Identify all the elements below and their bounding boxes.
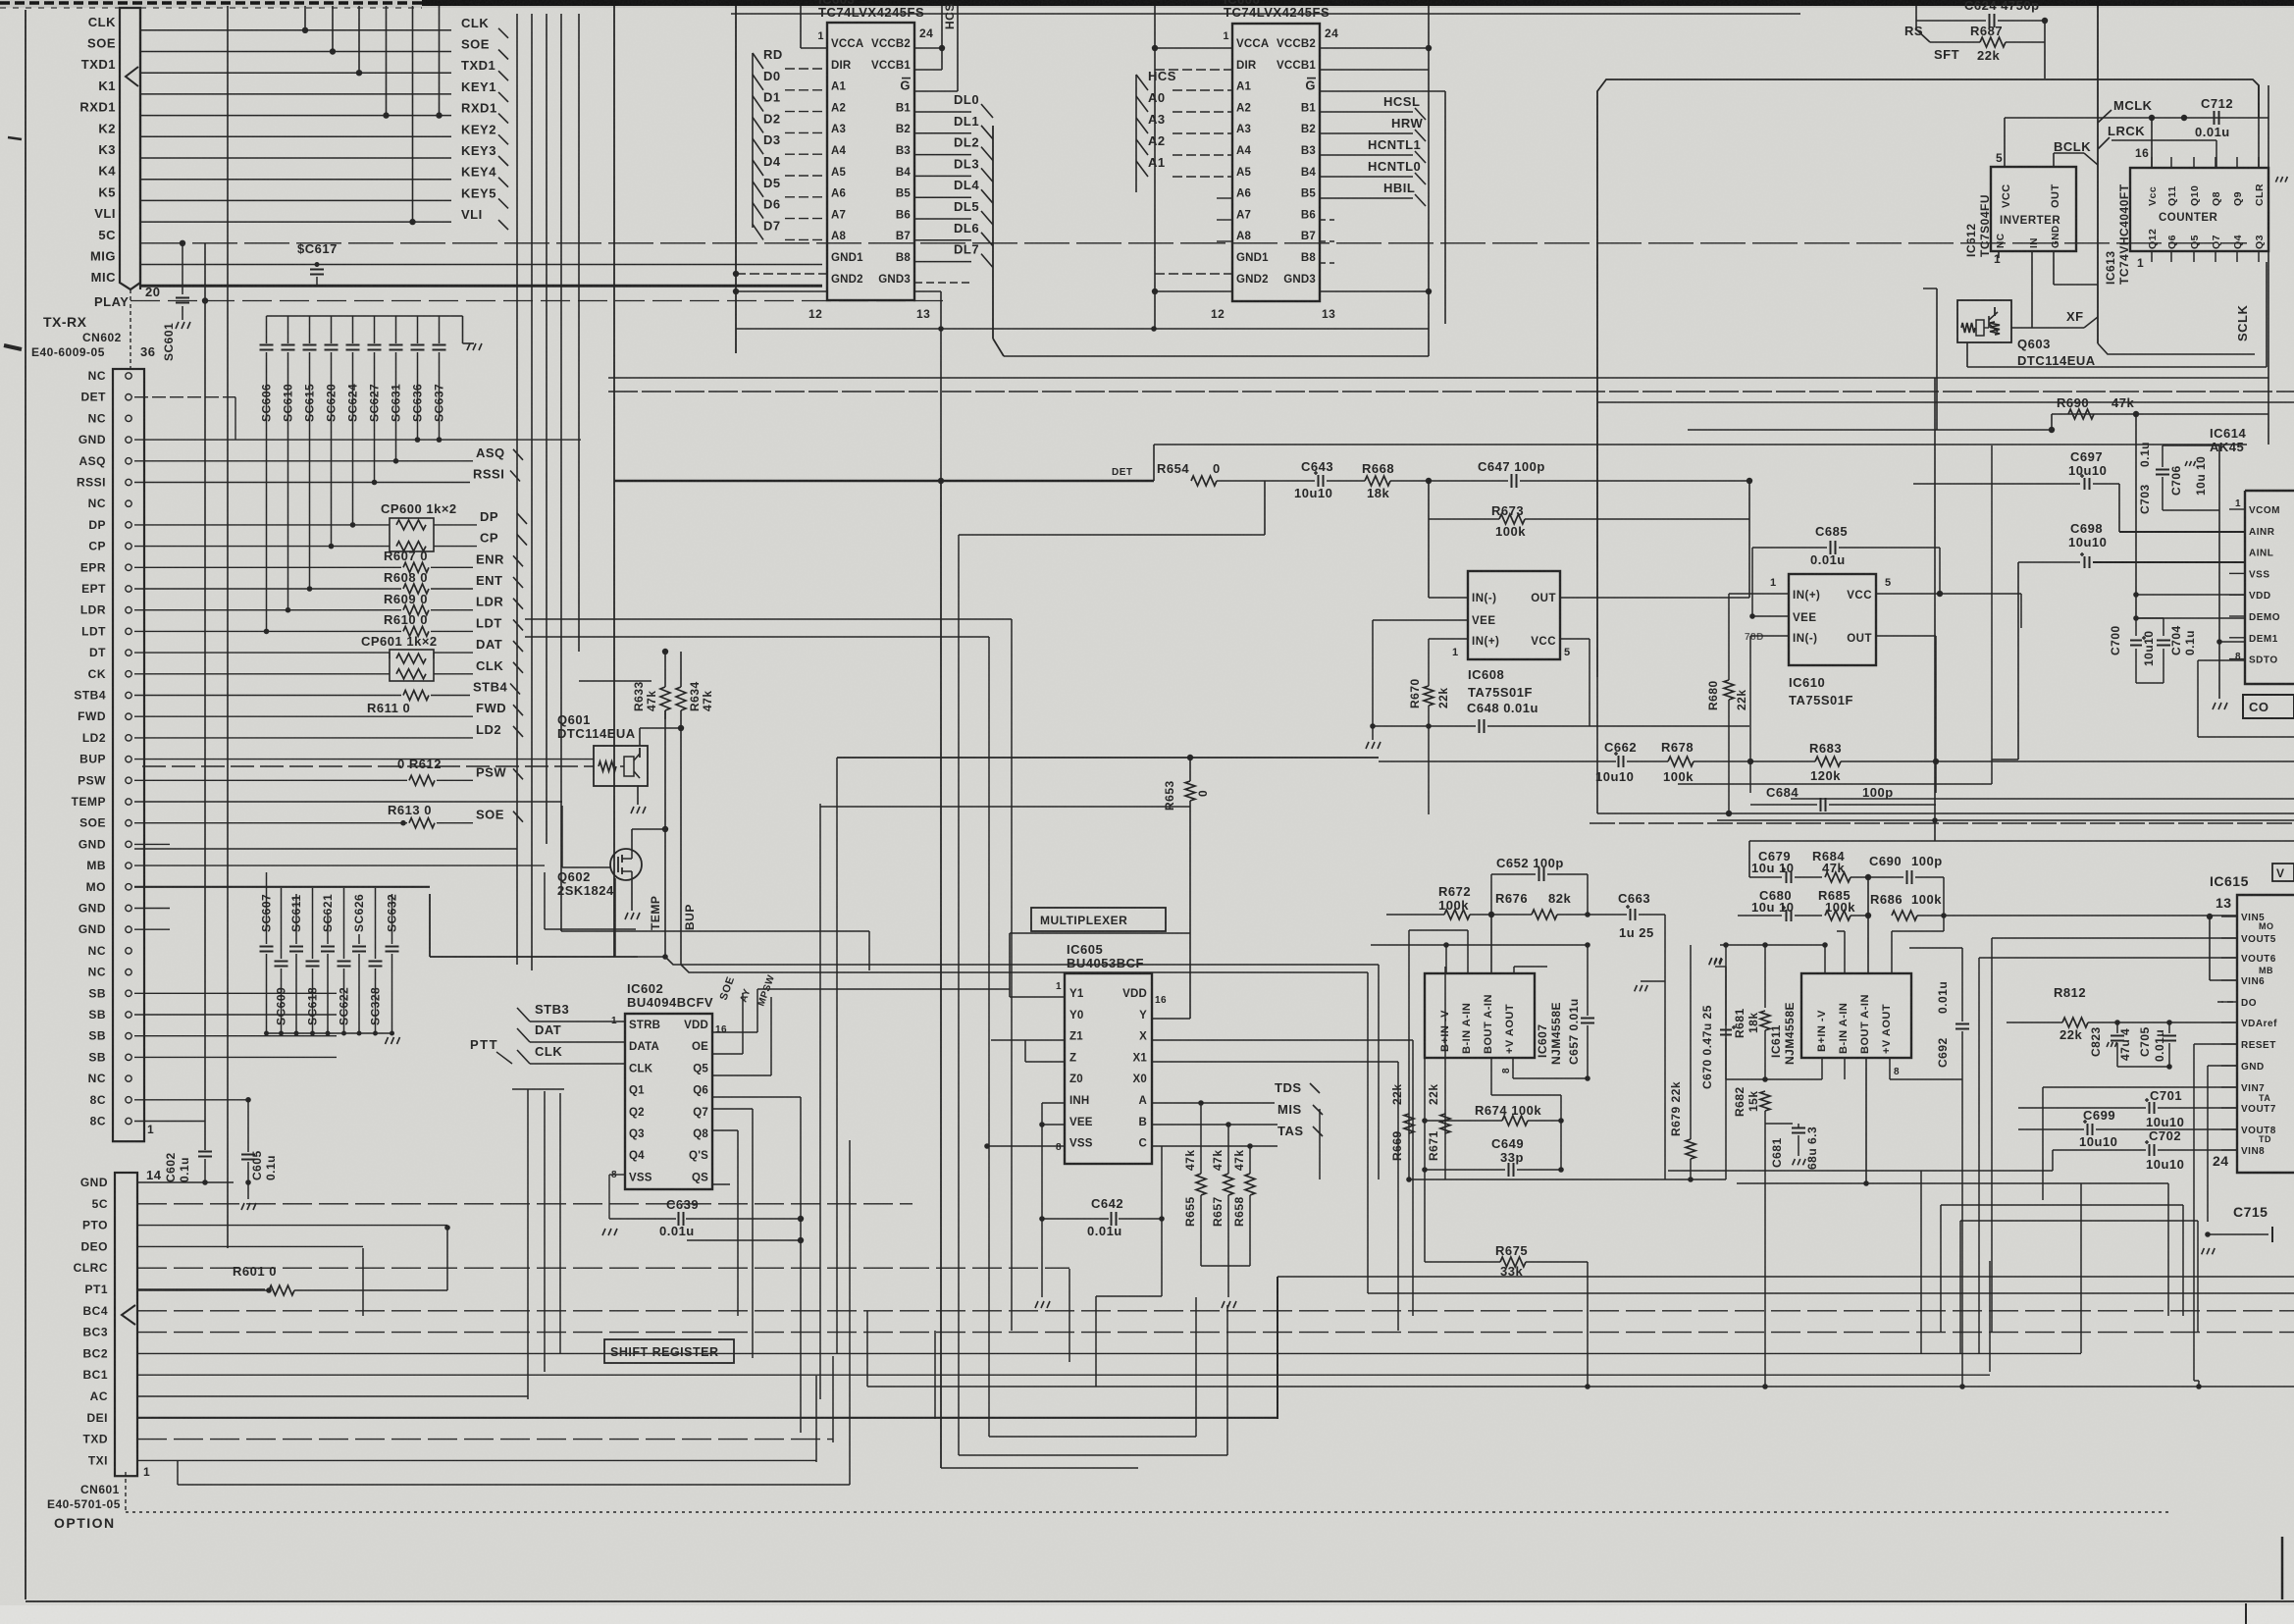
wire GND3	[914, 290, 941, 292]
pin circle	[126, 437, 131, 443]
wire G IC606	[1320, 90, 1445, 92]
capacitor C617	[316, 265, 318, 268]
pin circle	[126, 394, 131, 400]
pin circle	[126, 735, 131, 741]
wire DEO row	[137, 1245, 363, 1247]
wire to pin	[785, 111, 827, 113]
ground for CLR	[2275, 177, 2277, 183]
pin stub	[2236, 251, 2238, 262]
wire net SOE	[140, 51, 451, 53]
wire B2 IC606	[1320, 132, 1413, 134]
wire bus 819	[820, 806, 1190, 808]
pin circle	[126, 628, 131, 634]
resistor R654	[1191, 476, 1217, 486]
junction C639	[798, 1216, 804, 1222]
wire MB step	[544, 872, 546, 929]
wire ENR row	[134, 566, 401, 568]
wire DL bus vertical	[992, 126, 994, 339]
wire row 1413 ground bus	[867, 1386, 2294, 1388]
capacitor C685	[1752, 547, 1827, 549]
wire vertical 1090 CLRC	[1069, 1269, 1070, 1362]
junction	[393, 458, 399, 464]
capacitor SC601	[176, 297, 189, 299]
wire vertical 571 BC2	[559, 1093, 561, 1353]
capacitor C702	[2149, 1144, 2151, 1156]
junction VDD	[2133, 592, 2139, 598]
wire to pin	[1173, 176, 1232, 178]
junction MCLK/C712	[2181, 115, 2187, 121]
ground for C681	[1793, 1159, 1796, 1165]
wire from pin MO	[134, 886, 429, 888]
junction TEMP bus	[662, 954, 668, 960]
capacitor SC609	[281, 888, 283, 959]
wire vertical 1251	[1226, 1305, 1228, 1455]
wire Q8	[712, 1129, 738, 1131]
wire VOUT8	[2096, 1128, 2237, 1130]
junction	[1152, 288, 1158, 294]
junction VCC 610	[1937, 591, 1943, 597]
IC IC606 TC74LVX4245FS	[1232, 24, 1320, 301]
wire C	[1152, 1145, 1277, 1147]
capacitor SC637	[439, 316, 441, 343]
resistor R678	[1627, 760, 1668, 762]
wire ENT row	[134, 588, 401, 590]
wire VI box top right	[2272, 864, 2294, 881]
pin stub	[2229, 594, 2245, 596]
resistor R609	[403, 605, 429, 615]
resistor R613	[409, 818, 435, 828]
wire A7 stub	[1217, 219, 1232, 221]
pin circle	[126, 543, 131, 549]
wire DEMO stub	[2136, 617, 2245, 619]
wire 963 right	[1446, 944, 1588, 946]
wire C700 C704 bus	[2136, 617, 2164, 619]
box MULTIPLEXER	[1031, 908, 1166, 931]
junction C647 right	[1747, 478, 1752, 484]
wire GND1	[736, 273, 827, 275]
junction GND2	[733, 288, 739, 294]
pin stub	[2151, 251, 2153, 262]
wire B8 stub	[1320, 262, 1334, 264]
wire Q602 source	[631, 880, 633, 911]
pin stub	[2236, 157, 2238, 168]
wire row 1496	[941, 1467, 1138, 1469]
wire GND3 IC606	[1320, 290, 1429, 292]
capacitor C670	[1725, 967, 1727, 1025]
pin circle	[126, 1118, 131, 1124]
right bottom edge tick	[2281, 1537, 2284, 1599]
wire from pin SB	[134, 1056, 337, 1058]
capacitor SC620	[331, 316, 333, 343]
wire BCLK	[2054, 152, 2084, 154]
junction PLAY	[202, 297, 208, 303]
wire A-IN up 611	[1867, 877, 1869, 973]
resistor R671	[1444, 967, 1446, 1179]
resistor R676	[1491, 914, 1532, 916]
wire counter bottom bus	[1967, 366, 2267, 368]
wire LDT row	[134, 630, 401, 632]
resistor R683	[1815, 757, 1841, 766]
pin circle	[126, 1075, 131, 1081]
wire from pin GND	[134, 908, 170, 910]
wire vertical v1008	[988, 637, 990, 1437]
wire B1	[914, 111, 971, 113]
wire vertical drop	[304, 6, 306, 30]
transistor Q602 MOSFET	[610, 849, 642, 880]
resistor R685	[1825, 911, 1851, 920]
capacitor SC606	[266, 316, 268, 343]
bottom right tick	[2245, 1603, 2247, 1624]
junction 2000	[1959, 1384, 1965, 1389]
wire A6 stub	[1217, 197, 1232, 199]
wire vertical 557	[546, 14, 547, 844]
wire vertical 538 AC	[527, 1089, 529, 1399]
wire OE	[712, 1053, 743, 1055]
capacitor C698	[2018, 561, 2080, 563]
wire from pin BUP	[134, 759, 594, 760]
wire bus 836 right	[1717, 819, 2294, 821]
wire vertical 886	[868, 931, 870, 970]
junction	[329, 544, 335, 550]
junction 963	[1443, 942, 1449, 948]
wire 949 jog	[561, 930, 869, 932]
pin circle	[126, 799, 131, 805]
pin stub	[2229, 508, 2245, 510]
junction C657 bottom	[1585, 1075, 1590, 1081]
capacitor C706 block	[2163, 445, 2219, 446]
capacitor C647	[1429, 480, 1508, 482]
wire MCLK row	[2005, 117, 2268, 119]
wire to pin	[530, 1021, 625, 1022]
wire vertical 2028	[1989, 1261, 1991, 1372]
wire right vertical	[2258, 85, 2260, 168]
wire VCC IC608 down	[1748, 598, 1750, 726]
wire vertical 1394	[1367, 972, 1369, 1293]
wire LD2 row	[134, 737, 473, 739]
wire C698 left leg	[2017, 562, 2019, 760]
pin stub	[2221, 1065, 2237, 1067]
wire from pin GND	[134, 843, 170, 845]
wire A	[1152, 1102, 1275, 1104]
wire STB4 row	[134, 695, 401, 697]
wire vertical 627	[614, 878, 616, 957]
ground for Q601	[631, 807, 634, 813]
wire VCCB2 IC606	[1320, 47, 1429, 49]
ground for C670	[1709, 958, 1711, 964]
capacitor C605	[247, 1100, 249, 1152]
capacitor C679	[1749, 876, 1782, 878]
pin stub	[2221, 916, 2237, 917]
box SHIFT REGISTER	[604, 1339, 734, 1363]
junction R680 bottom	[1726, 811, 1732, 816]
wire IN- from R673	[1428, 519, 1430, 598]
resistor R612	[409, 775, 435, 785]
wire net TXD1	[140, 72, 451, 74]
resistor R655	[1200, 1103, 1202, 1174]
ground for SC lower bank	[386, 1037, 389, 1044]
wire vertical 2225	[2182, 1205, 2184, 1316]
capacitor SC626	[358, 934, 360, 944]
wire to pin	[530, 1063, 625, 1065]
junction	[1198, 1100, 1204, 1106]
resistor R682	[1760, 1091, 1770, 1111]
wire MIC row thick	[140, 285, 822, 288]
wire TEMP vertical	[664, 710, 666, 957]
wire vertical 2210	[2167, 1183, 2169, 1316]
wire option dashed vertical	[125, 1472, 127, 1512]
wire vertical v836	[819, 804, 821, 1399]
pin circle	[126, 948, 131, 954]
junction VSS	[984, 1143, 990, 1149]
capacitor C705	[2168, 1022, 2170, 1033]
wire vertical 1958	[1920, 1171, 1922, 1353]
capacitor C701	[2149, 1102, 2151, 1114]
pin stub	[2215, 157, 2216, 168]
wire vertical 832 TXI	[815, 1376, 817, 1462]
wire R683 row	[1750, 760, 1815, 762]
wire BUP run	[681, 965, 1368, 972]
resistor R669	[1408, 1179, 1410, 1180]
junction	[286, 607, 291, 613]
pin circle	[126, 479, 131, 485]
wire DL drop	[971, 176, 983, 189]
wire vertical v977	[958, 535, 960, 1455]
wire row 1318	[1368, 1292, 2294, 1294]
ground branch	[1641, 980, 1665, 982]
pin circle	[126, 564, 131, 570]
resistor R658	[1249, 1146, 1251, 1174]
wire VOUT5	[1992, 937, 2237, 939]
resistor R812	[2062, 1018, 2088, 1027]
wire flag bus vertical IC603	[752, 53, 754, 228]
capacitor SC627	[374, 316, 376, 343]
junction	[302, 27, 308, 33]
junction R678/IN-	[1747, 759, 1753, 764]
ground for SC601	[176, 322, 179, 329]
wire R675 right up	[1587, 1078, 1589, 1262]
pin circle	[126, 756, 131, 761]
wire IN- 610	[1750, 635, 1789, 637]
pin stub	[2221, 937, 2237, 939]
junction C649	[1422, 1167, 1428, 1173]
wire vertical 572	[560, 14, 562, 931]
ground for Q602	[625, 913, 628, 919]
junction	[350, 522, 356, 528]
pin circle	[126, 820, 131, 826]
junction BOUT	[1863, 1180, 1869, 1186]
pin stub	[2229, 615, 2245, 617]
pin stub	[2221, 1086, 2237, 1088]
wire C649 right down	[1560, 1121, 1562, 1170]
ground for C605	[241, 1203, 244, 1210]
wire DAT row	[134, 652, 390, 654]
wire GND row	[137, 1181, 234, 1183]
pin stub	[2221, 1149, 2237, 1151]
wire bus 772	[837, 757, 1379, 759]
junction R681 R682	[1762, 1076, 1768, 1082]
wire dashed connector link	[130, 304, 131, 369]
junction Q602 drain	[662, 826, 668, 832]
junction C648	[1370, 723, 1376, 729]
bottom border line	[26, 1600, 2294, 1602]
wire left vertical bus	[735, 6, 737, 353]
pin circle	[126, 969, 131, 974]
junction	[307, 586, 313, 592]
wire VOUT7	[2158, 1107, 2237, 1109]
wire BOUT down	[1490, 1058, 1492, 1095]
wire net RXD1	[140, 115, 451, 117]
wire OUT 610	[1876, 635, 1936, 637]
wire SDTO loop	[2198, 659, 2245, 661]
pin stub	[2221, 1128, 2237, 1130]
wire VCCA IC606	[1155, 47, 1232, 49]
wire OUT to C647 node	[1560, 597, 1749, 599]
wire B8	[914, 261, 971, 263]
wire flag tail	[1320, 1136, 1323, 1144]
left border small marks	[8, 137, 22, 139]
wire 5C row	[137, 1203, 912, 1205]
wire flag tail	[1319, 1093, 1321, 1101]
wire Q602 gate	[561, 806, 563, 867]
wire SFT row	[1930, 41, 1980, 43]
wire to pin	[1173, 89, 1232, 91]
wire PTO row	[137, 1225, 447, 1227]
junction GND1	[733, 271, 739, 277]
wire vertical drop	[439, 6, 441, 116]
wire VDD	[712, 1031, 757, 1033]
resistor R679	[1690, 945, 1692, 1139]
wire vertical drop	[358, 6, 360, 73]
wire net KEY3	[140, 157, 451, 159]
capacitor C643	[1265, 480, 1315, 482]
wire Q5	[712, 1074, 771, 1076]
wire DL drop	[971, 240, 983, 254]
wire vertical 2240	[2197, 1221, 2199, 1333]
wire vertical 866 bus	[849, 1140, 851, 1485]
wire VEE 610	[1752, 615, 1789, 617]
wire Q602 drain	[631, 829, 633, 850]
wire +V bottom	[1512, 1058, 1514, 1078]
pin circle	[126, 841, 131, 847]
wire from pin SB	[134, 1035, 337, 1037]
pin circle	[126, 713, 131, 719]
pin circle	[126, 522, 131, 528]
resistor R673	[1428, 481, 1430, 519]
resistor R607	[403, 562, 429, 572]
wire to pin	[785, 196, 827, 198]
wire IC603 bottom jog	[736, 328, 1429, 330]
wire B4	[914, 175, 971, 177]
junction 1618	[1585, 1384, 1590, 1389]
wire VIN5 long	[2196, 916, 2210, 917]
wire CP row	[134, 546, 390, 548]
wire RESET to bus	[2193, 1364, 2195, 1381]
top border thick bar	[422, 0, 2294, 6]
resistor R670	[1428, 639, 1430, 686]
wire PTT diagonal	[496, 1052, 512, 1064]
wire Q6	[712, 1096, 801, 1098]
capacitor C684	[1750, 804, 1817, 806]
wire from pin SB	[134, 992, 337, 994]
wire to pin	[785, 131, 827, 133]
junction C624	[2042, 18, 2048, 24]
wire INH VEE bracket	[1041, 1103, 1043, 1219]
wire PSW row	[134, 779, 407, 781]
wire R654 loop down	[1264, 481, 1266, 535]
pin circle	[126, 607, 131, 613]
capacitor SC624	[352, 316, 354, 343]
wire Q601 emitter	[637, 786, 639, 805]
junction OUT node	[1748, 597, 1750, 599]
wire B7	[914, 239, 971, 241]
wire R671 top corner	[1425, 966, 1445, 968]
junction	[1225, 1122, 1231, 1127]
wire Y1 loop	[1009, 933, 1011, 997]
ground for VEE	[1366, 742, 1369, 749]
resistor R668	[1327, 480, 1365, 482]
wire row 1301	[1277, 1276, 2294, 1278]
resistor R672	[1386, 914, 1444, 916]
wire ladder 948	[1409, 929, 1468, 931]
wire VCC stub	[2004, 118, 2006, 167]
wire Q603 bottom	[1966, 341, 1968, 343]
wire B8 stub	[914, 282, 971, 284]
pin circle	[126, 905, 131, 911]
pin circle	[126, 671, 131, 677]
wire flag bus vertical 542	[531, 14, 533, 970]
pin stub	[2151, 157, 2153, 168]
wire to pin	[785, 68, 827, 70]
connector CN602 lower body	[113, 369, 144, 1141]
resistor R601	[269, 1285, 294, 1295]
wire OPTION dashed row	[126, 1511, 2168, 1513]
wire block bottom rail	[1726, 1078, 1822, 1080]
bottom-left corner blotch	[0, 1611, 22, 1623]
ground C823	[2107, 1042, 2109, 1047]
junction R683 right	[1933, 759, 1939, 764]
capacitor SC610	[287, 316, 289, 343]
junction	[1932, 817, 1938, 823]
wire C642 down	[1041, 1219, 1043, 1297]
wire vertical v853	[836, 758, 838, 1353]
junction	[264, 629, 270, 635]
junction	[1426, 288, 1432, 294]
pin circle	[126, 1012, 131, 1018]
IC IC611 NJM4558E	[1801, 973, 1911, 1058]
wire C692 bottom to bus	[1961, 1079, 1963, 1387]
capacitor C657	[1587, 945, 1589, 1016]
wire right edge vertical	[2268, 85, 2269, 445]
wire B1 IC606	[1320, 111, 1413, 113]
wire bus 631	[525, 618, 1012, 620]
capacitor C681	[1765, 1123, 1793, 1125]
wire DL drop	[971, 219, 983, 233]
pin stub	[2229, 572, 2245, 574]
pin circle	[126, 373, 131, 379]
wire DO stub	[2217, 1001, 2237, 1003]
junction C642 left	[1039, 1216, 1045, 1222]
wire DET step	[235, 397, 236, 440]
pin stub	[2221, 1043, 2237, 1045]
wire VIN5 jog	[2209, 917, 2211, 980]
capacitor C700	[2135, 618, 2137, 636]
wire VSS to C639	[609, 1174, 625, 1176]
wire NC stub	[1998, 251, 2000, 258]
wire DET up loop	[1153, 445, 1155, 481]
wire to pin	[785, 153, 827, 155]
pin stub	[2258, 157, 2260, 168]
wire OUT stub	[2053, 153, 2055, 167]
